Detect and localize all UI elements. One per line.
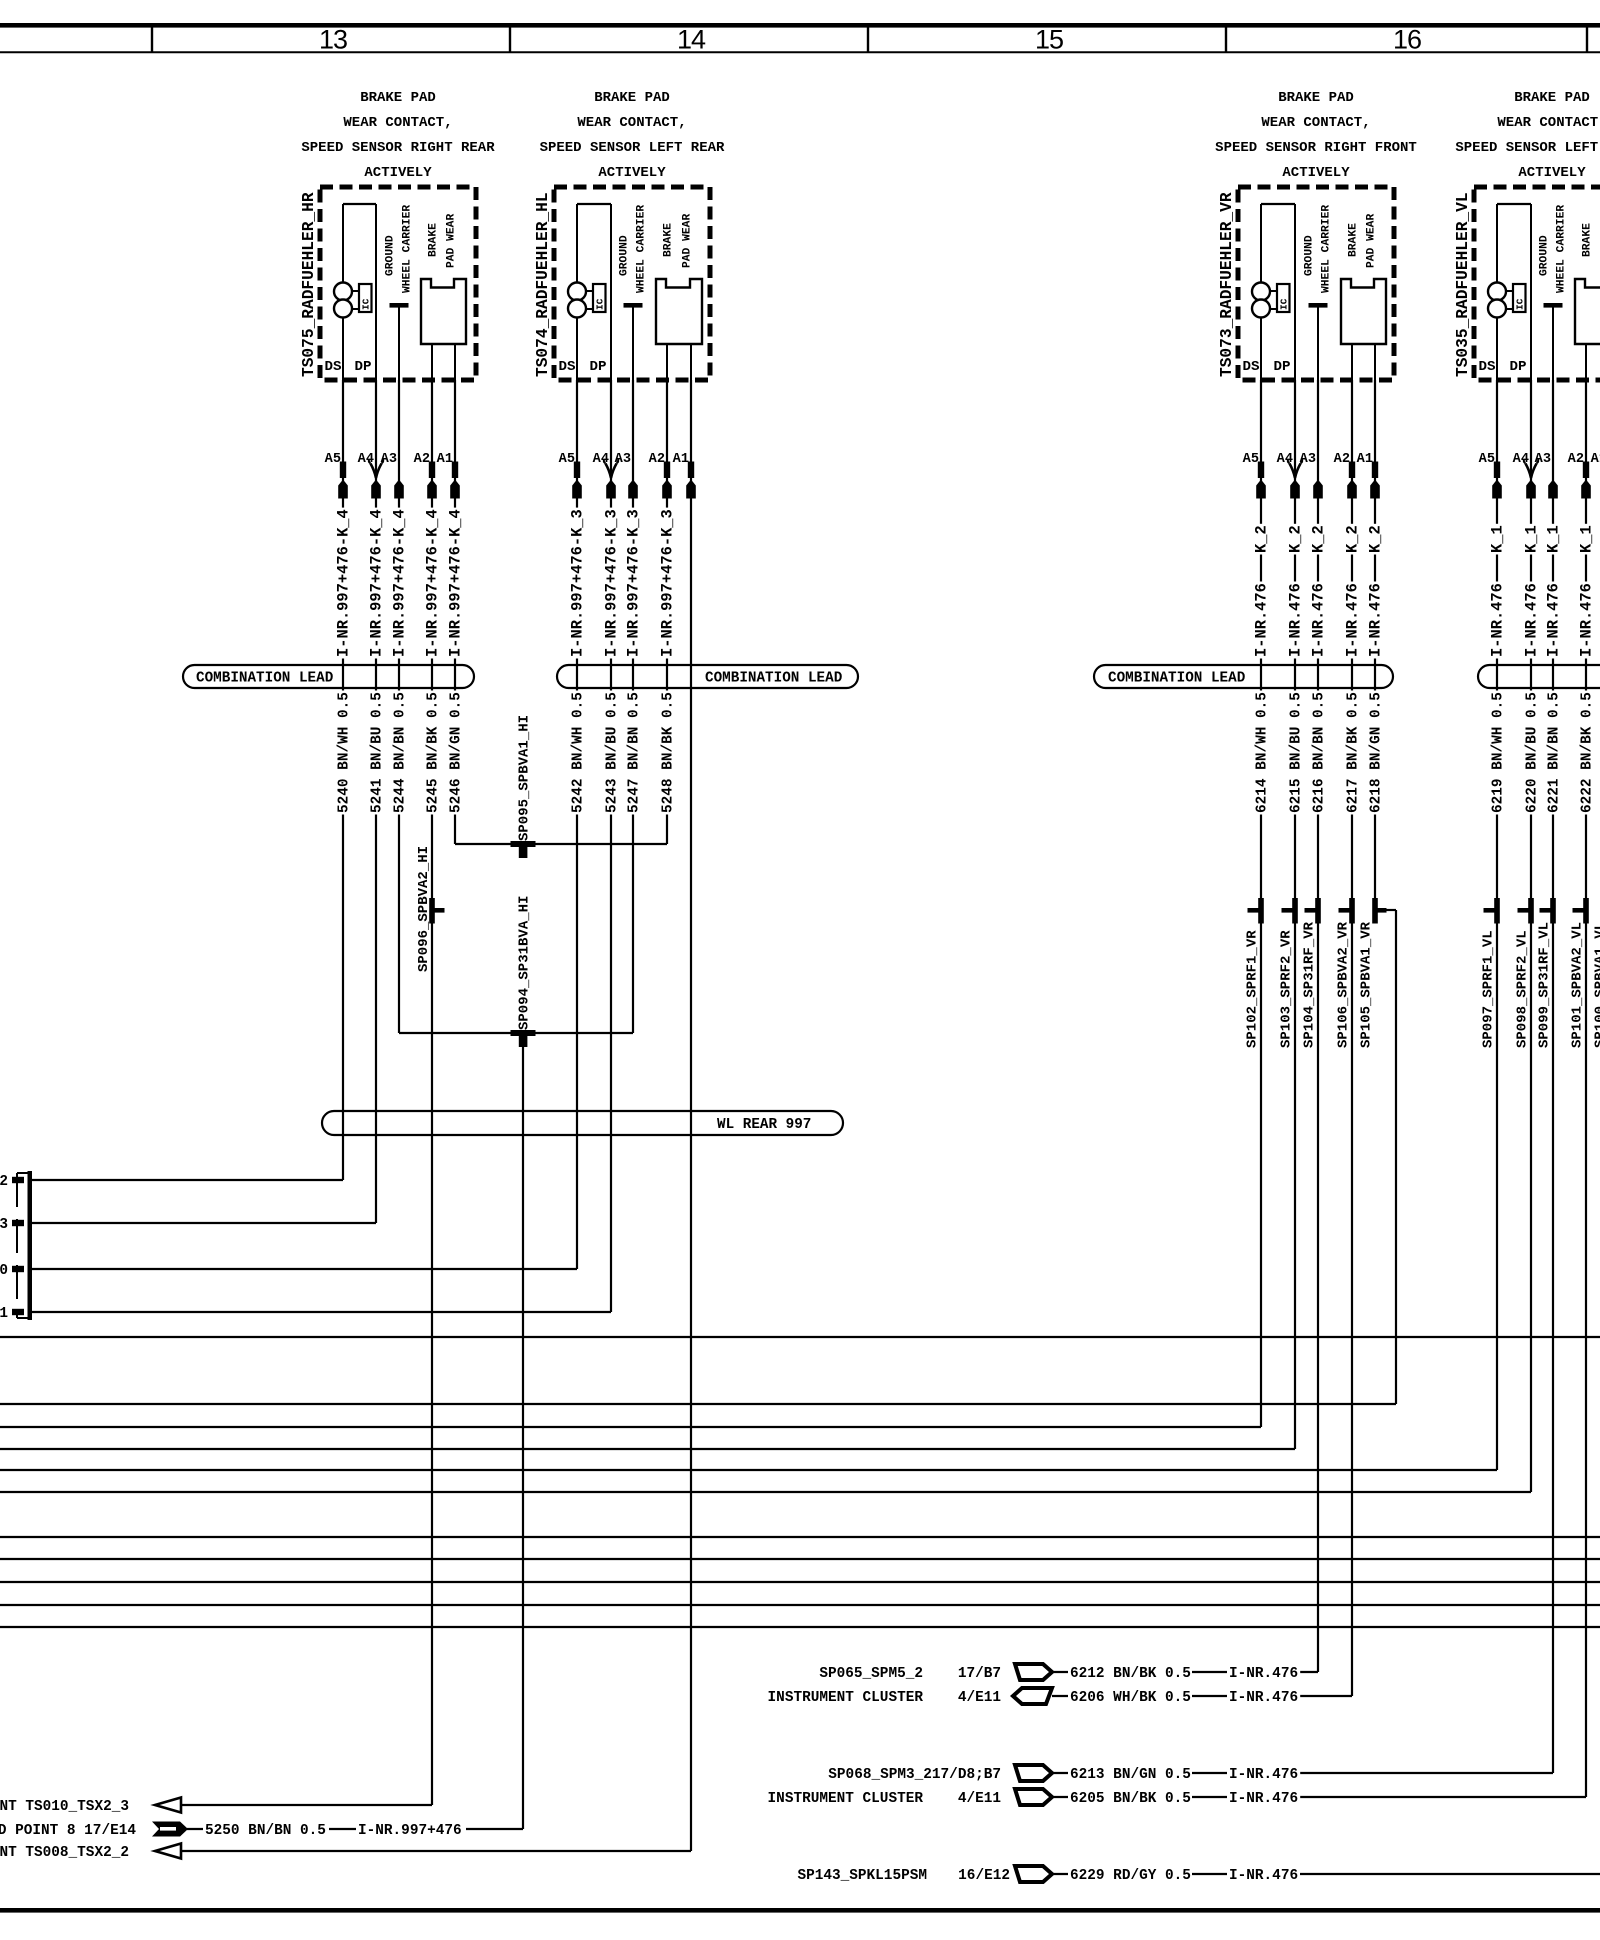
wire 5247 (TS074 A3 to splice SP094) — [632, 380, 634, 1033]
pin A2 — [414, 452, 437, 499]
wire 5241 (TS075 A4 to connector pin 3) — [31, 380, 376, 1223]
svg-text:SPEED SENSOR RIGHT FRONT: SPEED SENSOR RIGHT FRONT — [1215, 140, 1417, 156]
reference INSTRUMENT CLUSTER 4/E11 wire 6206 — [768, 1687, 1301, 1706]
svg-text:ACTIVELY: ACTIVELY — [1518, 165, 1586, 181]
svg-text:SPEED SENSOR LEFT FRONT: SPEED SENSOR LEFT FRONT — [1455, 140, 1600, 156]
svg-text:I-NR.476: I-NR.476 — [1488, 583, 1506, 657]
svg-text:6221 BN/BN 0.5: 6221 BN/BN 0.5 — [1546, 692, 1562, 813]
svg-text:17/B7: 17/B7 — [958, 1666, 1001, 1682]
wire label 5247 BN/BN 0.5 — [626, 691, 642, 815]
svg-text:TS074_RADFUEHLER_HL: TS074_RADFUEHLER_HL — [534, 192, 552, 377]
wire label 5246 BN/GN 0.5 — [448, 691, 464, 815]
wire label 5240 BN/WH 0.5 — [336, 691, 352, 815]
wire label I-NR.476-K_1 — [1488, 524, 1506, 659]
svg-text:I-NR.476: I-NR.476 — [1229, 1791, 1298, 1807]
wire label I-NR.997+476-K_3 — [658, 508, 676, 659]
svg-text:6205 BN/BK 0.5: 6205 BN/BK 0.5 — [1070, 1791, 1191, 1807]
svg-text:4/E11: 4/E11 — [958, 1690, 1002, 1706]
svg-text:SP101_SPBVA2_VL: SP101_SPBVA2_VL — [1570, 922, 1586, 1048]
wire bus — [0, 1536, 1600, 1538]
svg-text:6212 BN/BK 0.5: 6212 BN/BK 0.5 — [1070, 1666, 1191, 1682]
svg-text:A5: A5 — [325, 452, 341, 467]
svg-text:5248 BN/BK 0.5: 5248 BN/BK 0.5 — [660, 692, 676, 813]
svg-text:WHEEL CARRIER: WHEEL CARRIER — [1556, 205, 1568, 293]
component TS073_RADFUEHLER_VR title — [1215, 90, 1417, 181]
svg-text:WHEEL CARRIER: WHEEL CARRIER — [402, 205, 414, 293]
svg-text:ACTIVELY: ACTIVELY — [598, 165, 666, 181]
component TS075_RADFUEHLER_HR label — [300, 192, 318, 377]
wire splice SP105 output — [0, 910, 1396, 1404]
svg-text:IC: IC — [1279, 298, 1290, 310]
svg-text:6213 BN/GN 0.5: 6213 BN/GN 0.5 — [1070, 1767, 1191, 1783]
pin A4 — [358, 452, 384, 499]
pin A1 — [437, 452, 460, 499]
svg-text:I-NR.476: I-NR.476 — [1309, 583, 1327, 657]
svg-text:I-NR.476: I-NR.476 — [1229, 1690, 1298, 1706]
svg-text:6214 BN/WH 0.5: 6214 BN/WH 0.5 — [1254, 692, 1270, 813]
wire label I-NR.476-K_2 — [1286, 524, 1304, 659]
wire label I-NR.997+476-K_3 — [568, 508, 586, 659]
svg-text:SP096_SPBVA2_HI: SP096_SPBVA2_HI — [416, 846, 432, 972]
svg-text:K_2: K_2 — [1252, 525, 1270, 553]
svg-text:I-NR.476: I-NR.476 — [1252, 583, 1270, 657]
component TS073_RADFUEHLER_VR label — [1218, 192, 1236, 377]
splice SP105_SPBVA1_VR — [1359, 898, 1387, 1048]
wire label 6218 BN/GN 0.5 — [1368, 691, 1384, 815]
svg-text:SP065_SPM5_2: SP065_SPM5_2 — [819, 1666, 923, 1682]
svg-text:K_1: K_1 — [1488, 525, 1506, 553]
svg-text:DS: DS — [324, 359, 342, 375]
wire bus — [0, 1558, 1600, 1560]
svg-text:DS: DS — [1242, 359, 1260, 375]
component TS073_RADFUEHLER_VR box — [1238, 187, 1394, 380]
wire label I-NR.997+476-K_3 — [602, 508, 620, 659]
pin A4 — [1513, 452, 1539, 499]
svg-text:WHEEL CARRIER: WHEEL CARRIER — [636, 205, 648, 293]
svg-text:K_2: K_2 — [1343, 525, 1361, 553]
wire — [0, 1908, 1600, 1913]
svg-text:0: 0 — [0, 1263, 8, 1279]
wire label I-NR.476-K_1 — [1522, 524, 1540, 659]
wire label I-NR.997+476-K_4 — [390, 508, 408, 659]
splice SP098_SPRF2_VL — [1515, 898, 1534, 1048]
svg-text:2: 2 — [0, 1174, 8, 1190]
svg-text:BRAKE PAD: BRAKE PAD — [594, 90, 670, 106]
wire label 6220 BN/BU 0.5 — [1524, 691, 1540, 815]
svg-text:A2: A2 — [649, 452, 665, 467]
pin A5 — [1479, 452, 1502, 499]
wire 6222 (TS035 A2 to 6205) — [1052, 380, 1586, 1797]
svg-text:GROUND: GROUND — [385, 235, 397, 276]
brake pad wear contact TS075_RADFUEHLER_HR — [421, 214, 466, 380]
svg-text:COMPONENT TS010_TSX2_3: COMPONENT TS010_TSX2_3 — [0, 1799, 129, 1815]
svg-text:I-NR.997+476-K_3: I-NR.997+476-K_3 — [658, 509, 676, 657]
splice SP096_SPBVA2_HI — [416, 846, 445, 972]
svg-text:I-NR.476: I-NR.476 — [1366, 583, 1384, 657]
wire label 6216 BN/BN 0.5 — [1311, 691, 1327, 815]
wire bus — [0, 1626, 1600, 1628]
svg-text:COMBINATION LEAD: COMBINATION LEAD — [705, 671, 843, 687]
splice SP106_SPBVA2_VR — [1336, 898, 1355, 1048]
wire label I-NR.997+476-K_4 — [423, 508, 441, 659]
svg-text:6220 BN/BU 0.5: 6220 BN/BU 0.5 — [1524, 692, 1540, 813]
reference GROUND POINT 8 17/E14 wire 5250 — [0, 1820, 466, 1839]
svg-text:SP097_SPRF1_VL: SP097_SPRF1_VL — [1481, 930, 1497, 1048]
wire 5248 (TS074 A2 to splice SP095) — [666, 380, 668, 844]
wire 5245 (TS075 A2 via splice SP096 to TS010_TSX2_3) — [181, 380, 432, 1805]
wire label 6217 BN/BK 0.5 — [1345, 691, 1361, 815]
component TS035_RADFUEHLER_VL title — [1455, 90, 1600, 181]
svg-text:A1: A1 — [1357, 452, 1373, 467]
svg-text:I-NR.476: I-NR.476 — [1286, 583, 1304, 657]
svg-text:WEAR CONTACT,: WEAR CONTACT, — [1261, 115, 1370, 131]
svg-text:SP098_SPRF2_VL: SP098_SPRF2_VL — [1515, 930, 1531, 1048]
svg-text:I-NR.997+476-K_3: I-NR.997+476-K_3 — [602, 509, 620, 657]
wire label I-NR.997+476-K_3 — [624, 508, 642, 659]
wire label 5241 BN/BU 0.5 — [369, 691, 385, 815]
component TS074_RADFUEHLER_HL box — [554, 187, 710, 380]
pin A2 — [1334, 452, 1357, 499]
svg-text:BRAKE PAD: BRAKE PAD — [1514, 90, 1590, 106]
wire bus — [0, 1604, 1600, 1606]
svg-text:GROUND: GROUND — [619, 235, 631, 276]
svg-text:5247 BN/BN 0.5: 5247 BN/BN 0.5 — [626, 692, 642, 813]
pin A1 — [1357, 452, 1380, 499]
wire TS074 A1 to TS008_TSX2_2 — [181, 380, 691, 1851]
svg-text:I-NR.476: I-NR.476 — [1229, 1868, 1298, 1884]
svg-text:I-NR.997+476-K_4: I-NR.997+476-K_4 — [334, 509, 352, 657]
svg-text:SPEED SENSOR LEFT REAR: SPEED SENSOR LEFT REAR — [540, 140, 725, 156]
svg-text:I-NR.997+476-K_4: I-NR.997+476-K_4 — [423, 509, 441, 657]
svg-text:SP104_SP31RF_VR: SP104_SP31RF_VR — [1302, 921, 1318, 1048]
svg-text:21: 21 — [0, 1306, 8, 1322]
svg-text:5246 BN/GN 0.5: 5246 BN/GN 0.5 — [448, 692, 464, 813]
wire 6218 (TS073 A1 to splice SP105) — [1374, 380, 1376, 898]
svg-text:I-NR.997+476-K_4: I-NR.997+476-K_4 — [390, 509, 408, 657]
wire label 6214 BN/WH 0.5 — [1254, 691, 1270, 815]
svg-text:5250 BN/BN 0.5: 5250 BN/BN 0.5 — [205, 1823, 326, 1839]
svg-text:INSTRUMENT CLUSTER: INSTRUMENT CLUSTER — [768, 1690, 924, 1706]
svg-text:SP095_SPBVA1_HI: SP095_SPBVA1_HI — [516, 715, 532, 841]
splice SP102_SPRF1_VR — [1245, 898, 1264, 1048]
brake pad wear contact TS073_RADFUEHLER_VR — [1341, 214, 1386, 380]
svg-text:6219 BN/WH 0.5: 6219 BN/WH 0.5 — [1490, 692, 1506, 813]
svg-text:WL REAR 997: WL REAR 997 — [717, 1117, 811, 1133]
svg-text:16/E12: 16/E12 — [958, 1868, 1010, 1884]
combination lead label (column 16) — [1478, 665, 1600, 688]
pin A3 — [1535, 452, 1558, 499]
svg-text:14: 14 — [677, 25, 706, 55]
svg-text:OUND POINT 8 17/E14: OUND POINT 8 17/E14 — [0, 1823, 136, 1839]
pin A3 — [615, 452, 638, 499]
svg-text:K_2: K_2 — [1366, 525, 1384, 553]
svg-text:DS: DS — [1478, 359, 1496, 375]
svg-text:COMPONENT TS008_TSX2_2: COMPONENT TS008_TSX2_2 — [0, 1845, 129, 1861]
harness label WL REAR 997 — [322, 1111, 843, 1135]
pin A4 — [593, 452, 619, 499]
svg-text:SP102_SPRF1_VR: SP102_SPRF1_VR — [1245, 930, 1261, 1048]
svg-text:5241 BN/BU 0.5: 5241 BN/BU 0.5 — [369, 692, 385, 813]
brake pad wear contact TS074_RADFUEHLER_HL — [656, 214, 702, 380]
svg-text:I-NR.997+476-K_4: I-NR.997+476-K_4 — [367, 509, 385, 657]
svg-text:WEAR CONTACT,: WEAR CONTACT, — [343, 115, 452, 131]
wire 6216 (TS073 A3 to 6212) — [1052, 380, 1318, 1672]
svg-text:INSTRUMENT CLUSTER: INSTRUMENT CLUSTER — [768, 1791, 924, 1807]
svg-text:BRAKE PAD: BRAKE PAD — [1278, 90, 1354, 106]
svg-text:A5: A5 — [1479, 452, 1495, 467]
svg-text:BRAKE: BRAKE — [1582, 223, 1594, 257]
svg-text:IC: IC — [595, 298, 606, 310]
wire 5242 (TS074 A5 to connector pin 0) — [31, 380, 577, 1269]
wire bus — [0, 1581, 1600, 1583]
speed sensor symbol TS074_RADFUEHLER_HL — [558, 204, 611, 380]
svg-text:5243 BN/BU 0.5: 5243 BN/BU 0.5 — [604, 692, 620, 813]
pin A5 — [1243, 452, 1266, 499]
svg-text:BRAKE: BRAKE — [1348, 223, 1360, 257]
svg-text:IC: IC — [361, 298, 372, 310]
wire splice SP095 bus (5246 to 5248) — [455, 843, 667, 845]
svg-text:DS: DS — [558, 359, 576, 375]
wire 6219 (TS035 A5) — [0, 380, 1497, 1470]
svg-text:6206 WH/BK 0.5: 6206 WH/BK 0.5 — [1070, 1690, 1191, 1706]
speed sensor symbol TS073_RADFUEHLER_VR — [1242, 204, 1295, 380]
pin A5 — [559, 452, 582, 499]
svg-text:5244 BN/BN 0.5: 5244 BN/BN 0.5 — [392, 692, 408, 813]
svg-text:BRAKE: BRAKE — [428, 223, 440, 257]
svg-text:I-NR.476: I-NR.476 — [1343, 583, 1361, 657]
wire label I-NR.997+476-K_4 — [446, 508, 464, 659]
svg-text:5245 BN/BK 0.5: 5245 BN/BK 0.5 — [425, 692, 441, 813]
component TS074_RADFUEHLER_HL title — [540, 90, 725, 181]
svg-text:DP: DP — [1273, 359, 1290, 375]
connector X (pins 2,3,0,21) — [0, 1171, 32, 1322]
svg-text:I-NR.476: I-NR.476 — [1577, 583, 1595, 657]
wire 5240 (TS075 A5 to connector pin 2) — [31, 380, 343, 1180]
wire label 5248 BN/BK 0.5 — [660, 691, 676, 815]
ground wheel-carrier contact TS074_RADFUEHLER_HL — [619, 205, 648, 380]
ground wheel-carrier contact TS073_RADFUEHLER_VR — [1304, 205, 1333, 380]
reference SP065_SPM5_2 17/B7 wire 6212 — [819, 1663, 1300, 1682]
wire label I-NR.476-K_1 — [1577, 524, 1595, 659]
component TS035_RADFUEHLER_VL label — [1454, 192, 1472, 377]
pin A3 — [381, 452, 404, 499]
svg-text:DP: DP — [354, 359, 371, 375]
svg-text:I-NR.997+476-K_4: I-NR.997+476-K_4 — [446, 509, 464, 657]
splice SP101_SPBVA2_VL — [1570, 898, 1589, 1048]
component TS075_RADFUEHLER_HR title — [301, 90, 495, 181]
svg-text:SP068_SPM3_217/D8;B7: SP068_SPM3_217/D8;B7 — [828, 1767, 1001, 1783]
svg-text:ACTIVELY: ACTIVELY — [1282, 165, 1350, 181]
svg-text:A2: A2 — [414, 452, 430, 467]
splice SP094_SP31BVA_HI — [511, 896, 536, 1047]
svg-text:SP100_SPBVA1_VL: SP100_SPBVA1_VL — [1593, 922, 1600, 1048]
wire 6221 (TS035 A3 to 6213) — [1052, 380, 1553, 1773]
pin A2 — [1568, 452, 1591, 499]
wire label 6219 BN/WH 0.5 — [1490, 691, 1506, 815]
svg-text:A2: A2 — [1568, 452, 1584, 467]
svg-text:GROUND: GROUND — [1304, 235, 1316, 276]
svg-text:WEAR CONTACT,: WEAR CONTACT, — [577, 115, 686, 131]
svg-text:13: 13 — [319, 25, 347, 55]
pin A3 — [1300, 452, 1323, 499]
component TS075_RADFUEHLER_HR box — [320, 187, 476, 380]
svg-text:6217 BN/BK 0.5: 6217 BN/BK 0.5 — [1345, 692, 1361, 813]
svg-text:6218 BN/GN 0.5: 6218 BN/GN 0.5 — [1368, 692, 1384, 813]
svg-text:A3: A3 — [381, 452, 397, 467]
svg-text:SP094_SP31BVA_HI: SP094_SP31BVA_HI — [516, 896, 532, 1030]
combination lead label (column 14) — [557, 665, 858, 688]
wire label 6215 BN/BU 0.5 — [1288, 691, 1304, 815]
wire 6220 (TS035 A4) — [0, 380, 1531, 1492]
svg-text:BRAKE PAD: BRAKE PAD — [360, 90, 436, 106]
wire label 6221 BN/BN 0.5 — [1546, 691, 1562, 815]
svg-text:PAD WEAR: PAD WEAR — [682, 214, 694, 268]
wire 5244 (TS075 A3 to splice SP094) — [398, 380, 400, 1033]
svg-text:15: 15 — [1035, 25, 1063, 55]
svg-text:WEAR CONTACT,: WEAR CONTACT, — [1497, 115, 1600, 131]
wire label I-NR.476-K_2 — [1343, 524, 1361, 659]
component TS074_RADFUEHLER_HL label — [534, 192, 552, 377]
wire 6215 (TS073 A4) — [0, 380, 1295, 1449]
svg-text:SPEED SENSOR RIGHT REAR: SPEED SENSOR RIGHT REAR — [301, 140, 495, 156]
svg-text:I-NR.476: I-NR.476 — [1544, 583, 1562, 657]
pin A1 — [673, 452, 696, 499]
wire 5246 (TS075 A1 to splice SP095) — [454, 380, 456, 844]
wire label I-NR.476-K_2 — [1252, 524, 1270, 659]
svg-text:6216 BN/BN 0.5: 6216 BN/BN 0.5 — [1311, 692, 1327, 813]
svg-text:I-NR.997+476-K_3: I-NR.997+476-K_3 — [624, 509, 642, 657]
reference INSTRUMENT CLUSTER 4/E11 wire 6205 — [768, 1788, 1301, 1807]
svg-text:I-NR.997+476: I-NR.997+476 — [358, 1823, 462, 1839]
svg-text:COMBINATION LEAD: COMBINATION LEAD — [1108, 671, 1246, 687]
svg-text:I-NR.476: I-NR.476 — [1522, 583, 1540, 657]
svg-text:K_1: K_1 — [1577, 525, 1595, 553]
svg-text:A5: A5 — [1243, 452, 1259, 467]
splice SP103_SPRF2_VR — [1279, 898, 1298, 1048]
svg-text:A2: A2 — [1334, 452, 1350, 467]
svg-text:6222 BN/BK 0.5: 6222 BN/BK 0.5 — [1579, 692, 1595, 813]
wire label I-NR.997+476-K_4 — [334, 508, 352, 659]
svg-text:SP099_SP31RF_VL: SP099_SP31RF_VL — [1537, 922, 1553, 1048]
svg-text:A1: A1 — [673, 452, 689, 467]
svg-text:SP105_SPBVA1_VR: SP105_SPBVA1_VR — [1359, 921, 1375, 1048]
svg-text:ACTIVELY: ACTIVELY — [364, 165, 432, 181]
splice SP095_SPBVA1_HI — [511, 715, 536, 858]
svg-text:I-NR.997+476-K_3: I-NR.997+476-K_3 — [568, 509, 586, 657]
svg-text:IC: IC — [1515, 298, 1526, 310]
ground wheel-carrier contact TS035_RADFUEHLER_VL — [1539, 205, 1568, 380]
svg-text:K_2: K_2 — [1286, 525, 1304, 553]
svg-text:4/E11: 4/E11 — [958, 1791, 1002, 1807]
ground wheel-carrier contact TS075_RADFUEHLER_HR — [385, 205, 414, 380]
svg-text:SP106_SPBVA2_VR: SP106_SPBVA2_VR — [1336, 921, 1352, 1048]
svg-text:5240 BN/WH 0.5: 5240 BN/WH 0.5 — [336, 692, 352, 813]
wire label 5244 BN/BN 0.5 — [392, 691, 408, 815]
svg-text:3: 3 — [0, 1217, 8, 1233]
svg-text:TS035_RADFUEHLER_VL: TS035_RADFUEHLER_VL — [1454, 192, 1472, 377]
wire label I-NR.997+476-K_4 — [367, 508, 385, 659]
reference COMPONENT TS010_TSX2_3 — [0, 1798, 181, 1816]
pin A2 — [649, 452, 672, 499]
svg-text:DP: DP — [1509, 359, 1526, 375]
svg-text:A1: A1 — [1591, 452, 1600, 467]
wire label I-NR.476-K_2 — [1309, 524, 1327, 659]
wire 5243 (TS074 A4 to connector pin 21) — [31, 380, 611, 1312]
svg-text:WHEEL CARRIER: WHEEL CARRIER — [1321, 205, 1333, 293]
combination lead label (column 15) — [1094, 665, 1393, 688]
wire splice SP094 bus (5244 to 5247) — [399, 1032, 633, 1034]
svg-text:COMBINATION LEAD: COMBINATION LEAD — [196, 671, 334, 687]
pin A4 — [1277, 452, 1303, 499]
reference SP068_SPM3_2 17/D8;B7 wire 6213 — [828, 1764, 1300, 1783]
wire bus — [0, 1336, 1600, 1338]
pin A1 — [1591, 452, 1600, 499]
wire label I-NR.476-K_1 — [1544, 524, 1562, 659]
wire label I-NR.476-K_2 — [1366, 524, 1384, 659]
pin A5 — [325, 452, 348, 499]
svg-text:TS075_RADFUEHLER_HR: TS075_RADFUEHLER_HR — [300, 192, 318, 377]
wire 6214 (TS073 A5) — [0, 380, 1261, 1427]
svg-text:A5: A5 — [559, 452, 575, 467]
svg-text:K_1: K_1 — [1522, 525, 1540, 553]
wire label 5245 BN/BK 0.5 — [425, 691, 441, 815]
splice SP099_SP31RF_VL — [1537, 898, 1556, 1048]
wire — [0, 23, 1600, 28]
wire label 6222 BN/BK 0.5 — [1579, 691, 1595, 815]
wire 6217 (TS073 A2 to 6206) — [1052, 380, 1352, 1696]
combination lead label (column 13) — [183, 665, 474, 688]
svg-text:I-NR.476: I-NR.476 — [1229, 1666, 1298, 1682]
wire label 5243 BN/BU 0.5 — [604, 691, 620, 815]
svg-text:TS073_RADFUEHLER_VR: TS073_RADFUEHLER_VR — [1218, 192, 1236, 377]
reference SP143_SPKL15PSM 16/E12 wire 6229 — [797, 1865, 1600, 1884]
svg-text:6229 RD/GY 0.5: 6229 RD/GY 0.5 — [1070, 1868, 1191, 1884]
speed sensor symbol TS035_RADFUEHLER_VL — [1478, 204, 1531, 380]
speed sensor symbol TS075_RADFUEHLER_HR — [324, 204, 376, 380]
brake pad wear contact TS035_RADFUEHLER_VL — [1575, 214, 1600, 380]
svg-text:I-NR.476: I-NR.476 — [1229, 1767, 1298, 1783]
svg-text:5242 BN/WH 0.5: 5242 BN/WH 0.5 — [570, 692, 586, 813]
svg-text:A3: A3 — [615, 452, 631, 467]
svg-text:BRAKE: BRAKE — [663, 223, 675, 257]
svg-text:A3: A3 — [1535, 452, 1551, 467]
svg-text:SP103_SPRF2_VR: SP103_SPRF2_VR — [1279, 930, 1295, 1048]
reference COMPONENT TS008_TSX2_2 — [0, 1844, 181, 1862]
svg-text:16: 16 — [1393, 25, 1421, 55]
svg-text:PAD WEAR: PAD WEAR — [446, 214, 458, 268]
svg-text:DP: DP — [589, 359, 606, 375]
wire 5250 (SP094 to ground point 8) — [187, 1047, 523, 1829]
svg-text:6215 BN/BU 0.5: 6215 BN/BU 0.5 — [1288, 692, 1304, 813]
svg-text:K_2: K_2 — [1309, 525, 1327, 553]
svg-text:PAD WEAR: PAD WEAR — [1366, 214, 1378, 268]
wire label 5242 BN/WH 0.5 — [570, 691, 586, 815]
svg-text:A3: A3 — [1300, 452, 1316, 467]
splice SP104_SP31RF_VR — [1302, 898, 1321, 1048]
splice SP100_SPBVA1_VL — [1593, 898, 1600, 1048]
svg-text:K_1: K_1 — [1544, 525, 1562, 553]
svg-text:A1: A1 — [437, 452, 453, 467]
svg-text:GROUND: GROUND — [1539, 235, 1551, 276]
splice SP097_SPRF1_VL — [1481, 898, 1500, 1048]
component TS035_RADFUEHLER_VL box — [1474, 187, 1600, 380]
svg-text:SP143_SPKL15PSM: SP143_SPKL15PSM — [797, 1868, 927, 1884]
